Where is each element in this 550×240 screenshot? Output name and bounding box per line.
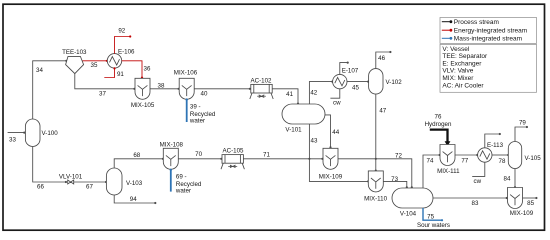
legend energy-integrated arrow xyxy=(442,29,453,32)
stream 77 xyxy=(455,154,478,165)
svg-text:44: 44 xyxy=(332,129,339,136)
svg-text:70: 70 xyxy=(195,151,202,158)
cw line E-113 xyxy=(472,162,485,185)
stream 33 xyxy=(8,132,26,144)
svg-text:V: Vessel: V: Vessel xyxy=(442,46,469,53)
svg-text:VLV-101: VLV-101 xyxy=(59,174,83,181)
legend box lower xyxy=(440,44,537,92)
stream 47 xyxy=(376,94,387,159)
svg-text:AC: Air Cooler: AC: Air Cooler xyxy=(442,82,484,89)
vessel V-100 xyxy=(25,119,58,147)
svg-text:TEE: Separator: TEE: Separator xyxy=(442,53,488,60)
svg-text:Sour waters: Sour waters xyxy=(417,222,450,229)
svg-text:E-106: E-106 xyxy=(118,49,135,56)
stream 67 xyxy=(74,181,107,191)
stream 35 xyxy=(83,60,108,69)
svg-text:AC-102: AC-102 xyxy=(251,78,273,85)
stream from E-113 top xyxy=(485,133,501,148)
svg-text:41: 41 xyxy=(286,91,293,98)
svg-text:MIX-108: MIX-108 xyxy=(160,141,184,148)
legend process stream arrow xyxy=(442,20,453,23)
svg-text:40: 40 xyxy=(201,91,208,98)
mixer MIX-106 xyxy=(174,70,198,100)
svg-text:AC-105: AC-105 xyxy=(223,147,245,154)
vessel V-105 xyxy=(508,142,541,169)
mixer MIX-109 (lower) xyxy=(508,188,534,218)
svg-text:Mass-integrated stream: Mass-integrated stream xyxy=(454,36,522,43)
svg-text:V-103: V-103 xyxy=(126,180,143,187)
stream 72 xyxy=(338,152,413,188)
exchanger E-107 xyxy=(333,67,359,88)
exchanger E-106 xyxy=(107,49,135,68)
mixer MIX-111 xyxy=(437,145,460,176)
vessel V-104 xyxy=(392,188,433,218)
stream 84 xyxy=(504,169,517,189)
stream 45 xyxy=(347,81,369,92)
svg-text:cw: cw xyxy=(474,178,482,185)
svg-text:V-104: V-104 xyxy=(400,211,417,218)
stream 39 recycled water xyxy=(186,98,216,124)
stream 94 xyxy=(114,195,156,204)
mixer MIX-105 xyxy=(131,78,155,109)
svg-text:43: 43 xyxy=(311,137,318,144)
cw line E-107 xyxy=(330,89,341,107)
svg-text:water: water xyxy=(175,188,191,195)
mixer MIX-109 (upper) xyxy=(319,148,343,180)
svg-text:E-113: E-113 xyxy=(487,142,504,149)
svg-text:75: 75 xyxy=(427,214,434,221)
svg-text:36: 36 xyxy=(144,66,151,73)
vessel V-103 xyxy=(106,168,142,195)
svg-text:38: 38 xyxy=(158,83,165,90)
svg-text:water: water xyxy=(189,118,205,125)
svg-text:E-107: E-107 xyxy=(342,67,359,74)
stream 34 xyxy=(33,60,68,119)
stream 92 xyxy=(115,27,132,53)
svg-text:83: 83 xyxy=(472,200,479,207)
stream 36 xyxy=(122,61,151,79)
stream 73 xyxy=(383,176,408,188)
svg-text:MIX-110: MIX-110 xyxy=(364,196,387,203)
svg-text:Energy-integrated stream: Energy-integrated stream xyxy=(454,28,527,35)
svg-text:cw: cw xyxy=(333,100,341,107)
stream 75 sour waters xyxy=(417,208,450,229)
svg-text:47: 47 xyxy=(379,107,386,114)
svg-text:92: 92 xyxy=(118,27,125,34)
svg-text:V-100: V-100 xyxy=(42,130,59,137)
svg-text:84: 84 xyxy=(504,176,511,183)
stream from E-107 top xyxy=(340,62,349,75)
svg-text:39 -: 39 - xyxy=(190,104,201,111)
stream 68 xyxy=(114,152,164,168)
stream 91 xyxy=(104,67,124,78)
svg-text:34: 34 xyxy=(36,67,43,74)
legend mass-integrated arrow xyxy=(442,37,453,40)
stream 79 xyxy=(515,119,528,141)
stream 85 xyxy=(523,197,538,207)
stream 37 xyxy=(75,74,136,98)
valve VLV-101 xyxy=(59,174,83,185)
vessel V-102 xyxy=(369,69,403,94)
svg-text:33: 33 xyxy=(9,136,16,143)
svg-text:Process stream: Process stream xyxy=(454,19,499,26)
svg-text:V-101: V-101 xyxy=(285,126,302,133)
svg-text:MIX-109: MIX-109 xyxy=(319,173,343,180)
svg-text:91: 91 xyxy=(117,71,124,78)
stream 66 xyxy=(33,147,67,191)
svg-text:TEE-103: TEE-103 xyxy=(62,49,87,56)
stream 40 xyxy=(194,88,251,98)
stream 44 xyxy=(325,115,340,149)
svg-text:73: 73 xyxy=(391,176,398,183)
vessel V-101 xyxy=(282,104,325,133)
stream 74 xyxy=(423,154,441,188)
svg-text:46: 46 xyxy=(378,55,385,62)
svg-text:42: 42 xyxy=(310,89,317,96)
svg-text:77: 77 xyxy=(461,158,468,165)
svg-text:V-105: V-105 xyxy=(525,155,542,162)
svg-text:MIX-111: MIX-111 xyxy=(437,168,460,175)
exchanger E-113 xyxy=(478,142,504,162)
svg-text:MIX-109: MIX-109 xyxy=(510,210,534,217)
svg-text:45: 45 xyxy=(352,84,359,91)
svg-text:71: 71 xyxy=(263,151,270,158)
svg-text:Hydrogen: Hydrogen xyxy=(425,121,452,128)
svg-text:94: 94 xyxy=(130,196,137,203)
svg-text:69 -: 69 - xyxy=(176,174,187,181)
svg-text:85: 85 xyxy=(527,200,534,207)
svg-text:76: 76 xyxy=(435,114,442,121)
stream 78 xyxy=(492,154,509,165)
stream 43 xyxy=(308,124,369,182)
stream 83 xyxy=(433,197,508,207)
svg-text:79: 79 xyxy=(519,119,526,126)
svg-text:MIX-106: MIX-106 xyxy=(174,70,198,77)
stream 71 xyxy=(243,151,323,160)
svg-text:VLV: Valve: VLV: Valve xyxy=(442,68,473,75)
svg-text:66: 66 xyxy=(37,183,44,190)
stream 69 recycled water xyxy=(170,169,202,195)
svg-text:74: 74 xyxy=(427,158,434,165)
stream 41 xyxy=(272,89,299,105)
svg-text:37: 37 xyxy=(99,91,106,98)
wire junction 47 to MIX-110 xyxy=(375,159,377,172)
legend box upper xyxy=(440,18,537,44)
svg-text:35: 35 xyxy=(91,62,98,69)
svg-text:68: 68 xyxy=(133,152,140,159)
svg-text:72: 72 xyxy=(395,152,402,159)
mixer MIX-108 xyxy=(160,141,184,169)
stream 38 xyxy=(150,83,180,90)
svg-text:MIX: Mixer: MIX: Mixer xyxy=(442,75,474,82)
svg-text:67: 67 xyxy=(86,184,93,191)
air cooler AC-105 xyxy=(221,147,244,169)
separator TEE-103 xyxy=(62,49,87,74)
stream 46 xyxy=(376,51,392,69)
svg-text:MIX-105: MIX-105 xyxy=(131,102,155,109)
stream 76 hydrogen feed xyxy=(425,114,452,147)
stream 42 xyxy=(309,81,333,105)
stream 70 xyxy=(178,151,222,160)
air cooler AC-102 xyxy=(250,78,273,100)
svg-text:V-102: V-102 xyxy=(386,79,403,86)
mixer MIX-110 xyxy=(364,171,387,203)
svg-text:E: Exchanger: E: Exchanger xyxy=(442,60,482,67)
svg-text:78: 78 xyxy=(499,158,506,165)
